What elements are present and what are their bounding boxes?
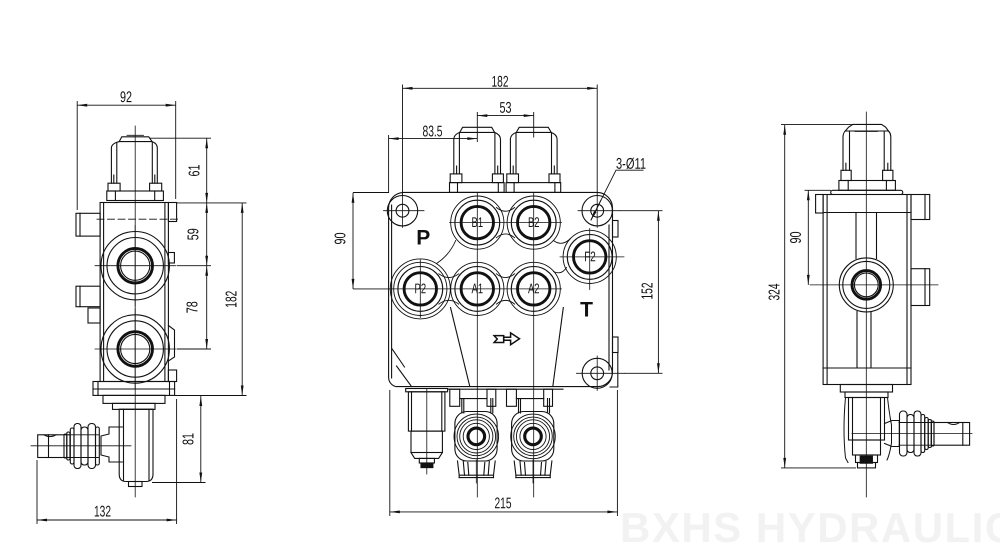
svg-text:59: 59 (186, 228, 203, 240)
left view: cap thread stubs (114, 175, 155, 183)
center view: F2 horizontal centerline (560, 256, 624, 258)
dim 132 ext left (36, 460, 38, 524)
svg-text:B2: B2 (528, 214, 540, 230)
left view: bore circle 2 ring (107, 321, 163, 377)
dim 215 ext left (389, 390, 391, 516)
svg-text:182: 182 (224, 291, 241, 308)
svg-text:215: 215 (494, 495, 511, 512)
svg-text:53: 53 (499, 100, 511, 117)
center view: port labels (415, 214, 596, 322)
left view: bore circle 1 ring (107, 238, 163, 294)
center view: mounting hole TL (396, 204, 409, 217)
right view: bellows big ring 3 (914, 411, 921, 456)
left view: cap feet (108, 183, 120, 191)
right view: bore verticals above circle (856, 213, 877, 259)
center view: spool1 bracket (450, 389, 460, 406)
right view: cap dome (845, 124, 888, 131)
dim 92 line (77, 104, 176, 106)
svg-text:92: 92 (120, 89, 132, 106)
svg-text:78: 78 (185, 301, 202, 313)
right view: housing lock (filled) (860, 456, 872, 463)
svg-text:3-Ø11: 3-Ø11 (616, 156, 646, 173)
center view: relief valve block (408, 392, 445, 431)
svg-text:182: 182 (491, 74, 508, 91)
center view: column B2/A2 centerline (533, 192, 535, 497)
right view: body main (823, 195, 911, 385)
dim 92 ext left (76, 101, 78, 210)
center view: flow arrow symbol (494, 336, 504, 343)
center view: row2 horizontal centerline (390, 288, 562, 290)
dim 182C line (403, 87, 598, 89)
center view: F2 vertical centerline (589, 229, 591, 290)
center view: spool1 bottom tick (475, 460, 477, 483)
left view: cap flange plate (107, 191, 164, 201)
dim 182L ext top (177, 202, 247, 204)
center view: body inner right wall (608, 225, 610, 370)
left view: right small bump (168, 253, 174, 264)
dim 90R line (807, 190, 809, 285)
svg-text:T: T (580, 298, 593, 321)
dim 61 line (206, 138, 208, 203)
svg-text:P2: P2 (415, 280, 427, 296)
center view: cap 2 feet (507, 174, 519, 183)
dim 324 ext top (781, 124, 853, 126)
right view: cap stadium flange (831, 190, 903, 194)
right view: circle crosshair (810, 284, 938, 286)
svg-text:81: 81 (181, 433, 198, 445)
svg-text:B1: B1 (472, 214, 484, 230)
center view: relief valve top flange (406, 389, 448, 392)
center view: cap 2 dome (516, 127, 551, 132)
dim 92 ext right (175, 101, 177, 199)
right view: housing outer bell (844, 398, 892, 463)
right view: housing lower (853, 440, 881, 455)
left view: cap dome (119, 137, 152, 142)
center view: cap 2 walls (510, 132, 557, 174)
right view: bellows end ring (928, 420, 931, 448)
center view: cap 1 walls (454, 132, 501, 174)
left view: bore circle 2 bold (118, 332, 153, 367)
right view: lever centerline (852, 433, 972, 435)
dim 182C ext right (596, 85, 598, 197)
right view: cap thread stubs (846, 163, 888, 170)
dim 182L ext bottom (175, 395, 247, 397)
dim 90C ext bottom (353, 288, 390, 290)
svg-text:90: 90 (333, 232, 350, 244)
dim 59 line (206, 203, 208, 266)
center view: right edge tab 2 (613, 337, 619, 353)
center view: spool1 casing (455, 412, 497, 462)
left view: cap inner walls (116, 143, 118, 184)
center view: port B2 (518, 206, 550, 238)
center view: scallop dips between bosses (439, 208, 515, 305)
left view: bellows end ring (96, 427, 100, 465)
right view: housing foot (856, 455, 878, 463)
center view: body bottom double line (448, 388, 563, 390)
center view: spool2 bottom tick (532, 460, 534, 483)
dim 81 ext bottom (152, 482, 206, 484)
center view: spool2 cylinder sides (519, 399, 550, 413)
left view: cap center tick (127, 134, 144, 136)
right view: right tab 2 (911, 269, 930, 306)
left view: housing step (113, 403, 156, 409)
svg-text:A2: A2 (528, 280, 540, 296)
center view: column B1/A1 centerline (476, 192, 478, 497)
center view: relief valve step (411, 431, 442, 452)
dim 90C ext top (353, 192, 389, 194)
center view: lower trapezoid recess (451, 308, 564, 387)
right view: cap inner walls (849, 131, 851, 170)
dim 132 ext right (176, 399, 178, 524)
right view: circle ring (843, 261, 890, 308)
right view: shaft lines through bellows (899, 423, 933, 446)
center view: spool2 circles (511, 414, 556, 459)
right view: circle inner (854, 273, 878, 297)
dim 152 ext bottom (624, 372, 663, 374)
right view: vertical centerline (865, 112, 867, 497)
left view: body hidden dashed line (97, 218, 178, 220)
dim 324 line (784, 125, 786, 468)
svg-text:152: 152 (640, 283, 657, 300)
dim 182L line (241, 203, 243, 396)
center view: port B1 (461, 206, 493, 238)
svg-text:BXHS HYDRAULIC: BXHS HYDRAULIC (620, 504, 1000, 549)
center view: cap 1 dome (460, 127, 495, 132)
center view: mounting hole TR (591, 204, 604, 217)
left view: right flange bottom (168, 370, 176, 382)
dim 59 ext (177, 265, 211, 267)
svg-text:P: P (416, 226, 430, 249)
right view: cap center tick (855, 131, 878, 133)
center view: spool2 casing (512, 412, 554, 462)
right view: bellows lead ring A (925, 418, 929, 450)
center view: cap 2 base plate (506, 183, 561, 193)
left view: bellows big ring 1 (74, 424, 81, 469)
center view: cap 1 feet (450, 174, 462, 183)
svg-text:F2: F2 (584, 248, 596, 264)
dim 81 line (200, 396, 202, 483)
dim 78 ext (177, 348, 211, 350)
right view: housing step (845, 392, 888, 398)
left view: lever centerline (31, 445, 131, 447)
left view: bore circle 1 bold (118, 248, 153, 283)
left view: circle 1 crosshair (95, 226, 176, 306)
right view: bellows lead ring B (921, 415, 925, 453)
left view: left tab 1 (76, 213, 100, 236)
dim 83.5 line (389, 138, 478, 140)
center view: body outline (389, 192, 613, 386)
center view: spool1 circles (454, 414, 499, 459)
svg-text:132: 132 (94, 503, 111, 520)
center view: spool2 bracket (507, 389, 517, 406)
dim 53 ext left (476, 112, 478, 142)
center view: port P2 (404, 273, 436, 305)
dim 324 ext bottom (781, 467, 856, 469)
dim 152 ext top (620, 210, 663, 212)
center view: P2 vertical centerline (419, 260, 421, 318)
right view: lever pivot (885, 421, 900, 447)
dim 152 line (657, 211, 659, 374)
svg-text:324: 324 (767, 283, 784, 300)
left view: bore circle 2 inner (121, 334, 150, 363)
center view: relief valve nut (419, 458, 434, 463)
left view: bellows big ring 3 (88, 424, 96, 469)
center view: body inner left wall (391, 205, 393, 378)
right view: housing block (849, 398, 885, 441)
dim 53 line (477, 115, 533, 117)
right view: cap tier2 plate (839, 181, 896, 191)
left view: bore circle 1 outer (101, 232, 169, 300)
center view: right edge lower flange (610, 353, 618, 388)
left view: lever pivot (101, 427, 122, 462)
center view: spool1 skirt (458, 461, 496, 475)
leader 3-Ø11 (591, 170, 644, 220)
left view: right mid tab (168, 326, 174, 362)
left view: bellows lead ring A (67, 432, 70, 460)
center view: scallop connector B2 to F2 (554, 239, 571, 244)
center view: spool2 skirt (514, 461, 552, 475)
dim 215 line (390, 511, 618, 513)
left view: lever shaft (38, 435, 70, 458)
dim 53 ext right (533, 112, 535, 138)
svg-text:A1: A1 (472, 280, 484, 296)
dim 90R ext top (805, 189, 832, 191)
left view: housing bottom tip (129, 482, 143, 487)
center view: spool1 cylinder sides (462, 399, 493, 413)
right view: cap feet (841, 170, 851, 180)
center view: row1 horizontal centerline (450, 222, 562, 224)
right view: left small tab (816, 195, 824, 214)
svg-text:83.5: 83.5 (422, 123, 442, 140)
svg-text:61: 61 (187, 165, 204, 177)
right view: body flange lines (823, 212, 911, 214)
center view: relief centerline (426, 389, 428, 475)
left view: housing block (119, 409, 153, 481)
center view: relief valve taper (411, 453, 442, 459)
dim 90C line (352, 193, 354, 289)
dim 132 line (37, 519, 177, 521)
left view: bore circle 1 inner (121, 251, 150, 280)
center view: port A2 (518, 273, 550, 305)
left view: vertical centerline (134, 126, 136, 497)
dim 215 ext right (616, 390, 618, 516)
left view: bore circle 2 outer (101, 315, 169, 383)
right view: circle bold (852, 271, 881, 300)
right view: bellows big ring 1 (900, 411, 908, 456)
right view: bore verticals below circle (857, 312, 871, 369)
left view: housing collar (103, 395, 165, 403)
center view: relief valve lock (filled) (421, 463, 433, 468)
center view: cap 1 base plate (450, 183, 505, 193)
left view: bottom flange mid line (93, 388, 175, 390)
left view: right flange top (168, 203, 176, 222)
center view: scallop connector B1 to P region (437, 241, 456, 264)
left view: bottom flange (93, 382, 175, 396)
left view: bellows big ring 2 (81, 427, 88, 465)
left view: circle 2 crosshair (95, 309, 176, 389)
dim 83.5 ext left (388, 135, 390, 193)
right view: bellows big ring 2 (907, 415, 914, 453)
right view: right tab 1 (911, 195, 930, 220)
right view: lever shaft (934, 423, 970, 446)
center view: right edge tab 1 (613, 221, 619, 238)
left view: body main (100, 203, 168, 382)
dim 78 line (206, 266, 208, 349)
left view: left tab 2 (76, 286, 100, 307)
left view: left small step (88, 308, 100, 323)
left view: cap walls (111, 142, 157, 184)
center view: port F2 (574, 241, 606, 273)
center view: scallop connector F2 to A2 (554, 268, 567, 273)
right view: circle outer (839, 258, 893, 312)
svg-text:90: 90 (788, 231, 805, 243)
dim 182C ext left (402, 85, 404, 197)
dim 61 ext top (150, 137, 211, 139)
right view: housing base (858, 463, 876, 468)
center view: mounting hole BR (591, 367, 604, 380)
right view: housing collar (840, 385, 892, 393)
left view: shaft lines through bellows (70, 435, 99, 458)
center view: lower-left scallop diagonals (392, 349, 411, 387)
center view: port A1 (461, 273, 493, 305)
right view: cap walls (843, 131, 891, 170)
left view: bellows lead ring B (70, 428, 74, 464)
